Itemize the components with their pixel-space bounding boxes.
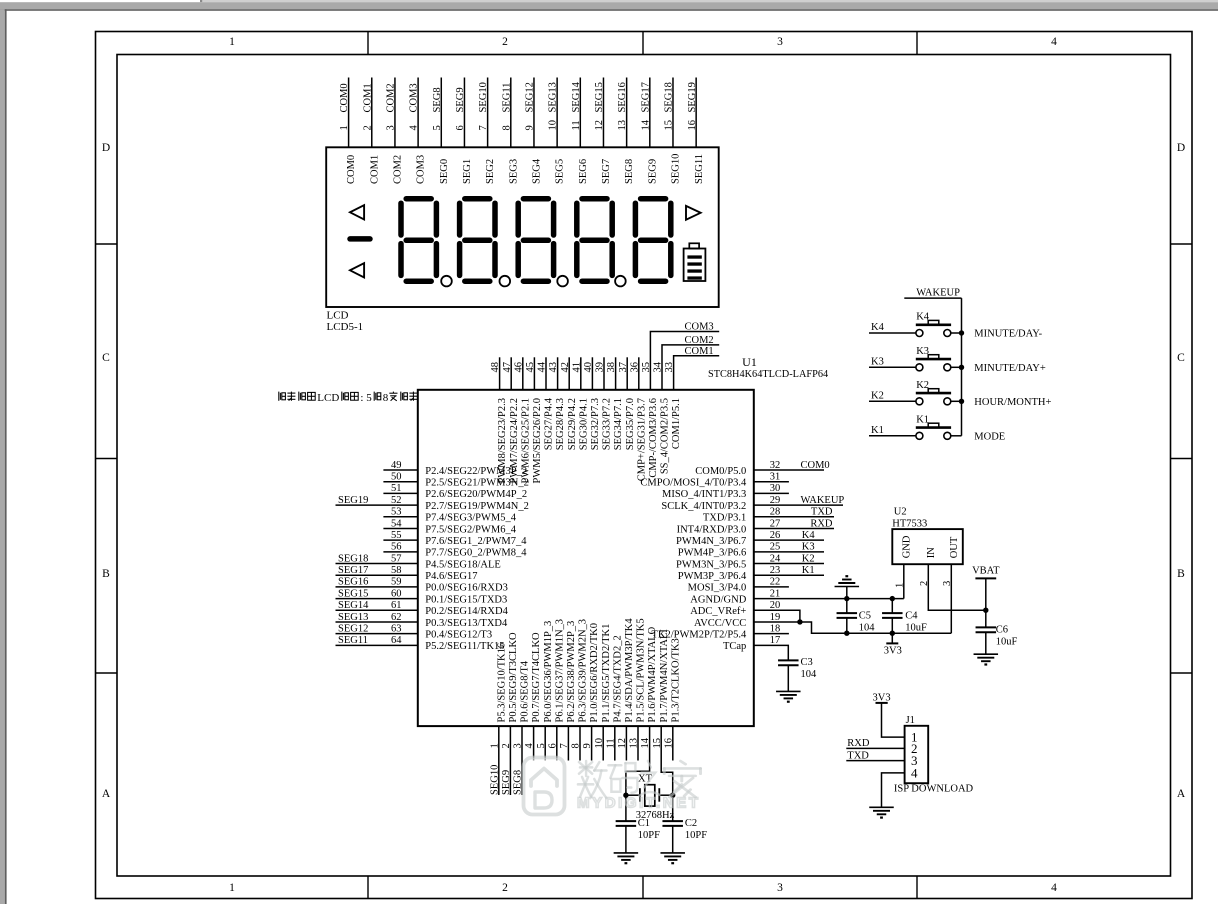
svg-text:IN: IN (926, 547, 937, 558)
svg-text:SEG13: SEG13 (338, 612, 368, 623)
U1 pin 10 stub (602, 726, 604, 760)
junction VBAT/U2 IN (983, 608, 988, 613)
svg-text:46: 46 (513, 362, 524, 373)
svg-text:58: 58 (391, 565, 402, 576)
LCD pin 11 wire SEG14 (579, 78, 581, 148)
wire net K1 to switch (869, 435, 916, 437)
svg-text:37: 37 (618, 362, 629, 373)
svg-text:AVCC/VCC: AVCC/VCC (694, 618, 746, 629)
svg-text:K3: K3 (871, 356, 884, 367)
svg-text:P7.5/SEG2/PWM6_4: P7.5/SEG2/PWM6_4 (425, 524, 516, 535)
svg-text:4: 4 (1051, 36, 1057, 48)
svg-text:COM0: COM0 (339, 83, 350, 112)
ground symbol on AGND wire (846, 587, 848, 599)
svg-text:COM3: COM3 (685, 322, 714, 333)
U1 pin 56 stub (383, 551, 417, 553)
wire J1 pin 4 to ground (882, 773, 905, 807)
U1 pin 24 wire, net K2 (754, 563, 824, 565)
svg-text:12: 12 (594, 120, 605, 131)
U2 pin 3 wire OUT to 3V3 bus (950, 564, 952, 633)
LCD pin 2 wire COM1 (371, 78, 373, 148)
svg-text:31: 31 (770, 471, 781, 482)
U1 pin 21 GND wire to U2 (754, 598, 904, 600)
LCD pin 8 wire SEG11 (510, 78, 512, 148)
U1 pin 38 stub (615, 357, 617, 390)
svg-text:OUT: OUT (949, 536, 960, 558)
svg-text:D: D (1177, 142, 1185, 154)
svg-text:18: 18 (770, 623, 781, 634)
svg-text:CMPO/MOSI_4/T0/P3.4: CMPO/MOSI_4/T0/P3.4 (640, 477, 747, 488)
svg-text:14: 14 (640, 737, 651, 748)
svg-text:P0.4/SEG12/T3: P0.4/SEG12/T3 (425, 629, 492, 640)
svg-text:COM2: COM2 (685, 335, 714, 346)
svg-text:2: 2 (362, 125, 373, 130)
svg-text:COM3: COM3 (416, 155, 427, 184)
svg-text:TCap: TCap (723, 641, 746, 652)
U1 pin 2 wire, net SEG9 (509, 726, 511, 795)
svg-text:47: 47 (502, 362, 513, 373)
U1 pin 9 stub (591, 726, 593, 760)
svg-text:1: 1 (229, 882, 235, 894)
left triangle indicator top (350, 205, 364, 219)
svg-text:32: 32 (770, 460, 781, 471)
svg-text:33: 33 (664, 362, 675, 373)
svg-text:P4.5/SEG18/ALE: P4.5/SEG18/ALE (425, 559, 501, 570)
U1 pin 49 stub (383, 469, 417, 471)
svg-text:SEG18: SEG18 (664, 82, 675, 112)
svg-text:PWM4P_3/P6.6: PWM4P_3/P6.6 (678, 548, 747, 559)
svg-text:P6.1/SEG37/PWM1N_3: P6.1/SEG37/PWM1N_3 (554, 619, 565, 723)
LCD pin 3 wire COM2 (394, 78, 396, 148)
svg-text:40: 40 (583, 362, 594, 373)
svg-text:SEG12: SEG12 (338, 623, 368, 634)
svg-text:SEG16: SEG16 (338, 577, 368, 588)
svg-text:43: 43 (548, 362, 559, 373)
svg-text:PWM4N_3/P6.7: PWM4N_3/P6.7 (676, 536, 746, 547)
svg-text:52: 52 (391, 495, 402, 506)
LCD pin 7 wire SEG10 (487, 78, 489, 148)
svg-text:14: 14 (640, 119, 651, 130)
junction C5/3V3 bus (844, 631, 849, 636)
LCD pin 14 wire SEG17 (649, 78, 651, 148)
svg-text:PWM3N_3/P6.5: PWM3N_3/P6.5 (676, 559, 746, 570)
left triangle indicator bottom (350, 263, 364, 277)
svg-text:SEG12: SEG12 (525, 82, 536, 112)
svg-text:1: 1 (339, 125, 350, 130)
svg-text:SEG9: SEG9 (647, 159, 658, 184)
U1 pin 26 wire, net K4 (754, 539, 824, 541)
svg-text:COM0: COM0 (346, 155, 357, 184)
U1 pin 32 wire, net COM0 (754, 469, 824, 471)
svg-text:AGND/GND: AGND/GND (690, 594, 746, 605)
svg-text:P1.3/T2CLKO/TK3: P1.3/T2CLKO/TK3 (670, 638, 681, 722)
U1 pin 39 stub (603, 357, 605, 390)
svg-text:SEG29/P4.2: SEG29/P4.2 (567, 398, 578, 450)
svg-text:COM1: COM1 (685, 346, 714, 357)
svg-text:26: 26 (770, 530, 781, 541)
svg-text:P6.0/SEG36/PWM1P_3: P6.0/SEG36/PWM1P_3 (543, 621, 554, 723)
svg-text:6: 6 (547, 743, 558, 748)
wire RXD to J1 pin 2 (846, 747, 904, 749)
svg-text:53: 53 (391, 507, 402, 518)
svg-text:55: 55 (391, 530, 402, 541)
svg-text:SEG1: SEG1 (462, 159, 473, 184)
wire switch K4 to bus (951, 332, 962, 334)
svg-text:MINUTE/DAY+: MINUTE/DAY+ (974, 363, 1046, 374)
svg-text:4: 4 (409, 125, 420, 131)
ground for C1 (614, 852, 639, 854)
wire switch K1 to bus (951, 435, 962, 437)
svg-text:2: 2 (501, 743, 512, 748)
svg-text:LCD: LCD (327, 310, 349, 322)
svg-text:SEG14: SEG14 (571, 81, 582, 112)
switch K1 (916, 432, 923, 439)
U1 pin 41 stub (580, 357, 582, 390)
column tick marks (367, 32, 369, 55)
svg-text:P1.4/SDA/PWM3P/TK4: P1.4/SDA/PWM3P/TK4 (624, 618, 635, 723)
svg-text:C1: C1 (638, 818, 650, 829)
svg-text:SEG0: SEG0 (439, 159, 450, 184)
U1 pin 46 stub (522, 357, 524, 390)
svg-text:41: 41 (571, 362, 582, 373)
svg-text:1: 1 (894, 583, 905, 588)
U2 pin 1 wire GND (903, 564, 905, 598)
svg-text:PWM6/SEG25/P2.1: PWM6/SEG25/P2.1 (520, 398, 531, 483)
svg-text:HT7533: HT7533 (892, 519, 927, 530)
U1 pin 50 stub (383, 481, 417, 483)
svg-text:10: 10 (548, 120, 559, 131)
svg-text:PWM5/SEG26/P2.0: PWM5/SEG26/P2.0 (532, 398, 543, 483)
U1 pin 1 wire, net SEG10 (498, 726, 500, 795)
svg-text:SEG13: SEG13 (548, 82, 559, 112)
U1 pin 36 stub (638, 357, 640, 390)
button bus vertical wire (961, 298, 963, 436)
svg-text:P0.6/SEG8/T4: P0.6/SEG8/T4 (520, 660, 531, 722)
ground for C3 (776, 690, 801, 692)
svg-text:12: 12 (617, 738, 628, 749)
svg-text:U2: U2 (894, 507, 907, 518)
svg-text:SEG16: SEG16 (617, 82, 628, 112)
svg-text:HOUR/MONTH+: HOUR/MONTH+ (974, 397, 1051, 408)
wire net K2 to switch (869, 400, 916, 402)
svg-text:1: 1 (489, 743, 500, 748)
svg-text:6: 6 (455, 125, 466, 130)
svg-text:45: 45 (525, 362, 536, 373)
LCD 7-segment digit 4 (582, 196, 607, 202)
svg-text:P4.6/SEG17: P4.6/SEG17 (425, 571, 477, 582)
svg-text:8: 8 (571, 743, 582, 748)
svg-text:MODE: MODE (974, 431, 1005, 442)
U1 pin 13 stub (637, 726, 639, 760)
sheet inner border (117, 55, 1171, 877)
svg-text:10: 10 (594, 738, 605, 749)
svg-text:15: 15 (664, 120, 675, 131)
svg-text:SEG9: SEG9 (501, 770, 512, 795)
svg-text:51: 51 (391, 483, 402, 494)
svg-text:39: 39 (595, 362, 606, 373)
U1 pin 6 stub (556, 726, 558, 760)
svg-text:4: 4 (524, 743, 535, 749)
svg-text:C4: C4 (905, 610, 918, 621)
svg-text:P7.7/SEG0_2/PWM8_4: P7.7/SEG0_2/PWM8_4 (425, 548, 527, 559)
U1 pin 51 stub (383, 492, 417, 494)
svg-text:63: 63 (391, 623, 402, 634)
LCD module body (326, 147, 719, 307)
svg-text:ADC_VRef+: ADC_VRef+ (690, 606, 746, 617)
svg-text:36: 36 (629, 362, 640, 373)
capacitor C3 (778, 659, 799, 661)
U1 pin 14 wire XTALO to crystal (626, 726, 650, 795)
svg-text:P2.7/SEG19/PWM4N_2: P2.7/SEG19/PWM4N_2 (425, 501, 529, 512)
svg-text:38: 38 (606, 362, 617, 373)
U1 pin 52 wire, net SEG19 (336, 504, 418, 506)
svg-text:SEG32/P7.3: SEG32/P7.3 (590, 398, 601, 450)
svg-text:10PF: 10PF (685, 830, 707, 841)
VBAT wire (985, 578, 987, 627)
U1 pin 63 wire, net SEG12 (336, 633, 418, 635)
svg-text:28: 28 (770, 507, 781, 518)
svg-text:WAKEUP: WAKEUP (916, 287, 960, 298)
LCD 7-segment digit 5 (641, 196, 666, 202)
svg-text:25: 25 (770, 542, 781, 553)
svg-text:23: 23 (770, 565, 781, 576)
svg-text:RXD: RXD (847, 738, 870, 749)
svg-text:5: 5 (432, 125, 443, 130)
svg-text:P0.7/SEG7/T4CLKO: P0.7/SEG7/T4CLKO (531, 632, 542, 723)
svg-text:ISP DOWNLOAD: ISP DOWNLOAD (894, 784, 974, 795)
svg-text:SEG11: SEG11 (338, 635, 368, 646)
wire net K4 to switch (869, 332, 916, 334)
U1 pin 22 stub (754, 586, 789, 588)
U1 pin 37 stub (626, 357, 628, 390)
U1 pin 20 wire ADC_VRef+ elbow (754, 610, 800, 622)
U1 pin 45 stub (533, 357, 535, 390)
svg-text:8: 8 (383, 392, 389, 404)
svg-text:MOSI_3/P4.0: MOSI_3/P4.0 (688, 583, 747, 594)
svg-text:SEG8: SEG8 (624, 159, 635, 184)
LCD 7-segment digit 3 (523, 196, 548, 202)
junction crystal/C2 (670, 793, 675, 798)
svg-text:P1.5/SCL/PWM3N/TK5: P1.5/SCL/PWM3N/TK5 (636, 618, 647, 722)
svg-text:SEG15: SEG15 (338, 588, 368, 599)
svg-text:COM0/P5.0: COM0/P5.0 (695, 466, 746, 477)
svg-text:SEG27/P4.4: SEG27/P4.4 (544, 397, 555, 450)
LCD pin 4 wire COM3 (417, 78, 419, 148)
svg-text:B: B (102, 568, 110, 580)
U1 pin 62 wire, net SEG13 (336, 621, 418, 623)
svg-text:C6: C6 (996, 625, 1008, 636)
svg-text:P5.3/SEG10/TK16: P5.3/SEG10/TK16 (496, 643, 507, 723)
svg-text:CMP-/COM3/P3.6: CMP-/COM3/P3.6 (648, 398, 659, 478)
svg-text:49: 49 (391, 460, 402, 471)
svg-text:COM2: COM2 (393, 155, 404, 184)
svg-text:PWM7/SEG24/P2.2: PWM7/SEG24/P2.2 (509, 398, 520, 483)
svg-text:P0.0/SEG16/RXD3: P0.0/SEG16/RXD3 (425, 583, 508, 594)
capacitor C1 (625, 795, 627, 821)
svg-text:COM0: COM0 (801, 460, 830, 471)
svg-text:3: 3 (942, 581, 953, 586)
svg-text:SEG9: SEG9 (455, 87, 466, 112)
wire TXD to J1 pin 3 (846, 760, 904, 762)
svg-text:SEG17: SEG17 (338, 565, 368, 576)
U1 pin 59 wire, net SEG16 (336, 586, 418, 588)
svg-text:C5: C5 (859, 610, 871, 621)
wire 3V3 to J1 pin 1 (882, 703, 905, 737)
svg-text:SEG10: SEG10 (489, 765, 500, 795)
svg-text:SEG11: SEG11 (501, 83, 512, 113)
svg-text:16: 16 (687, 120, 698, 131)
U1 pin 40 stub (591, 357, 593, 390)
svg-text:P0.1/SEG15/TXD3: P0.1/SEG15/TXD3 (425, 594, 507, 605)
capacitor C4 (891, 599, 893, 614)
svg-text:24: 24 (770, 553, 781, 564)
top gray band (0, 2, 1218, 9)
svg-text:3: 3 (386, 125, 397, 130)
svg-text:J1: J1 (906, 715, 915, 726)
svg-text:P0.5/SEG9/T3CLKO: P0.5/SEG9/T3CLKO (508, 632, 519, 723)
U1 pin 47 stub (510, 357, 512, 390)
switch K2 (916, 398, 923, 405)
svg-text:P6.2/SEG38/PWM2P_3: P6.2/SEG38/PWM2P_3 (566, 621, 577, 723)
svg-text:K2: K2 (871, 390, 884, 401)
svg-text:SEG8: SEG8 (432, 87, 443, 112)
U1 pin 19 wire AVCC to 3V3 bus (754, 622, 952, 633)
svg-text:LCD5-1: LCD5-1 (327, 321, 364, 333)
svg-text:SEG17: SEG17 (640, 82, 651, 112)
svg-text:INT4/RXD/P3.0: INT4/RXD/P3.0 (677, 524, 747, 535)
crystal XT (645, 785, 655, 806)
LCD 7-segment digit 1 (406, 196, 431, 202)
svg-text:61: 61 (391, 600, 402, 611)
svg-text:20: 20 (770, 600, 781, 611)
svg-text:RXD: RXD (810, 518, 833, 529)
svg-text:P2.6/SEG20/PWM4P_2: P2.6/SEG20/PWM4P_2 (425, 489, 527, 500)
svg-text:COM2: COM2 (386, 83, 397, 112)
watermark text 数码之家 (578, 761, 607, 798)
right triangle indicator (686, 206, 701, 220)
svg-text:P1.1/SEG5/TXD2/TK1: P1.1/SEG5/TXD2/TK1 (601, 624, 612, 723)
ground for C2 (660, 852, 685, 854)
svg-text:COM3: COM3 (409, 83, 420, 112)
svg-text:44: 44 (537, 361, 548, 372)
svg-text:11: 11 (571, 120, 582, 130)
svg-text:: 5: : 5 (360, 392, 372, 404)
U1 pin 34 wire, net COM2 (662, 345, 719, 390)
svg-text:K1: K1 (871, 425, 884, 436)
U1 pin 53 stub (383, 516, 417, 518)
LCD pin 10 wire SEG13 (556, 78, 558, 148)
U1 pin 55 stub (383, 539, 417, 541)
svg-text:P7.6/SEG1_2/PWM7_4: P7.6/SEG1_2/PWM7_4 (425, 536, 527, 547)
LCD pin 9 wire SEG12 (533, 78, 535, 148)
LCD pin 1 wire COM0 (348, 78, 350, 148)
svg-text:62: 62 (391, 612, 402, 623)
svg-text:SCLK_4/INT0/P3.2: SCLK_4/INT0/P3.2 (661, 501, 746, 512)
U1 pin 30 stub (754, 492, 789, 494)
svg-text:15: 15 (652, 738, 663, 749)
U1 pin 28 wire, net TXD (754, 516, 834, 518)
svg-text:48: 48 (490, 362, 501, 373)
svg-text:LCD: LCD (317, 392, 339, 404)
battery icon (684, 249, 706, 282)
svg-text:8: 8 (501, 125, 512, 130)
U1 pin 61 wire, net SEG14 (336, 609, 418, 611)
U1 pin 64 wire, net SEG11 (336, 644, 418, 646)
U1 pin 44 stub (545, 357, 547, 390)
capacitor C2 (672, 795, 674, 821)
LCD pin 6 wire SEG9 (463, 78, 465, 148)
U1 pin 33 wire, net COM1 (674, 356, 720, 390)
U1 pin 57 wire, net SEG18 (336, 563, 418, 565)
svg-text:SEG15: SEG15 (594, 82, 605, 112)
browser top light strip (202, 0, 1218, 2)
svg-text:D: D (102, 142, 110, 154)
svg-text:2: 2 (502, 36, 508, 48)
svg-text:SEG30/P4.1: SEG30/P4.1 (578, 398, 589, 450)
svg-text:SEG35/P7.0: SEG35/P7.0 (625, 398, 636, 450)
svg-text:K3: K3 (802, 542, 815, 553)
U1 pin 17 wire TCap to C3 (754, 645, 789, 660)
svg-text:TXD: TXD (847, 750, 869, 761)
svg-text:MISO_4/INT1/P3.3: MISO_4/INT1/P3.3 (662, 489, 746, 500)
svg-text:3V3: 3V3 (884, 646, 902, 657)
svg-text:U1: U1 (742, 355, 757, 369)
U1 pin 58 wire, net SEG17 (336, 574, 418, 576)
svg-text:C: C (102, 352, 110, 364)
svg-text:64: 64 (391, 635, 402, 646)
svg-text:K4: K4 (916, 312, 930, 323)
svg-text:SEG10: SEG10 (478, 82, 489, 112)
junction K3/bus (959, 365, 964, 370)
svg-text:P1.6/PWM4P/XTALO: P1.6/PWM4P/XTALO (647, 626, 658, 722)
svg-text:54: 54 (391, 518, 402, 529)
svg-text:11: 11 (605, 738, 616, 748)
svg-text:13: 13 (617, 120, 628, 131)
wire net K3 to switch (869, 366, 916, 368)
ground for C6 (974, 653, 999, 655)
svg-text:MINUTE/DAY-: MINUTE/DAY- (974, 329, 1042, 340)
svg-text:21: 21 (770, 588, 781, 599)
svg-text:SEG33/P7.2: SEG33/P7.2 (602, 398, 613, 450)
wire crystal right (659, 794, 672, 796)
svg-text:16: 16 (663, 738, 674, 749)
watermark logo (524, 758, 565, 815)
svg-text:P4.7/SEG4/TXD2_2: P4.7/SEG4/TXD2_2 (612, 635, 623, 722)
svg-text:SS_4/COM2/P3.5: SS_4/COM2/P3.5 (660, 398, 671, 474)
svg-text:PWM8/SEG23/P2.3: PWM8/SEG23/P2.3 (497, 398, 508, 483)
junction crystal/C1 (623, 793, 628, 798)
svg-text:7: 7 (478, 125, 489, 130)
svg-text:STC8H4K64TLCD-LAFP64: STC8H4K64TLCD-LAFP64 (708, 369, 828, 380)
junction C4/3V3 bus (890, 631, 895, 636)
svg-text:SEG4: SEG4 (532, 158, 543, 184)
svg-text:K2: K2 (802, 553, 815, 564)
svg-text:3V3: 3V3 (873, 693, 891, 704)
svg-text:SEG11: SEG11 (694, 154, 705, 184)
junction K4/bus (959, 330, 964, 335)
svg-text:C3: C3 (801, 657, 813, 668)
3V3 power port under C4 (891, 633, 893, 643)
U1 pin 42 stub (568, 357, 570, 390)
svg-text:GND: GND (901, 535, 912, 558)
svg-text:SEG10: SEG10 (671, 154, 682, 184)
svg-text:34: 34 (653, 361, 664, 372)
svg-text:SEG18: SEG18 (338, 553, 368, 564)
svg-text:3: 3 (777, 882, 783, 894)
U1 pin 7 stub (567, 726, 569, 760)
LCD pin 15 wire SEG18 (672, 78, 674, 148)
svg-text:50: 50 (391, 471, 402, 482)
